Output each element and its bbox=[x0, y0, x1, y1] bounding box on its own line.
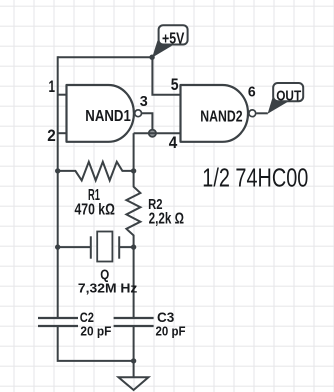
svg-text:2,2k Ω: 2,2k Ω bbox=[149, 211, 185, 228]
wire NAND2 output to OUT flag bbox=[257, 112, 268, 114]
svg-text:1/2 74HC00: 1/2 74HC00 bbox=[202, 162, 308, 192]
svg-text:NAND1: NAND1 bbox=[85, 108, 131, 125]
wire node to NAND2 pin 5 bbox=[152, 57, 180, 94]
svg-text:3: 3 bbox=[140, 93, 148, 110]
crystal Q left plate bbox=[90, 236, 92, 258]
svg-text:20 pF: 20 pF bbox=[156, 323, 186, 338]
node crystal right bbox=[131, 244, 136, 249]
svg-text:Q: Q bbox=[100, 266, 109, 282]
wire NAND1 pin 2 stub bbox=[58, 132, 67, 134]
junction gray node between gates bbox=[149, 130, 156, 137]
wire +5V top rail bbox=[58, 56, 152, 58]
ground symbol bbox=[119, 361, 149, 390]
power flag +5V tail bbox=[152, 41, 172, 58]
svg-text:4: 4 bbox=[169, 134, 178, 152]
wire junction down to R2 top bbox=[133, 133, 135, 171]
OUT flag box bbox=[273, 83, 303, 101]
svg-text:5: 5 bbox=[171, 76, 179, 94]
svg-text:NAND2: NAND2 bbox=[200, 109, 242, 126]
wire NAND1 pin 1 stub bbox=[58, 94, 67, 96]
svg-text:1: 1 bbox=[49, 78, 56, 96]
wire C3 top (crystal junction down to C3) bbox=[133, 247, 135, 318]
svg-text:470 kΩ: 470 kΩ bbox=[75, 202, 116, 219]
wire C2 bottom to ground rail bbox=[58, 326, 134, 361]
capacitor C3 plates bbox=[114, 318, 154, 326]
wire NAND2 pin 4 (over gray node) bbox=[134, 132, 181, 134]
resistor R1 bbox=[58, 162, 134, 181]
svg-text:7,32M Hz: 7,32M Hz bbox=[78, 281, 138, 296]
NAND2 output bubble bbox=[249, 110, 256, 117]
NAND1 output bubble bbox=[135, 110, 142, 117]
NAND1 gate body bbox=[67, 85, 134, 142]
crystal Q wires bbox=[58, 246, 134, 248]
node R1 left bbox=[55, 168, 60, 173]
node ground junction bbox=[131, 358, 136, 363]
svg-text:OUT: OUT bbox=[276, 88, 301, 104]
OUT flag tail bbox=[268, 96, 288, 114]
node crystal left bbox=[55, 244, 60, 249]
svg-text:2: 2 bbox=[47, 127, 56, 145]
node R1/R2 right bbox=[131, 168, 136, 173]
wire left rail (node to C2) bbox=[57, 56, 59, 318]
svg-text:20 pF: 20 pF bbox=[80, 323, 111, 338]
wire C3 bottom to ground rail bbox=[133, 326, 135, 361]
svg-text:6: 6 bbox=[248, 83, 256, 100]
crystal Q body bbox=[97, 232, 112, 262]
wire NAND1 output to junction bbox=[142, 113, 152, 133]
node +5V junction bbox=[149, 55, 154, 60]
power flag +5V box bbox=[159, 25, 188, 44]
svg-text:+5V: +5V bbox=[162, 30, 185, 47]
NAND2 gate body bbox=[181, 85, 249, 142]
crystal Q right plate bbox=[118, 236, 120, 258]
capacitor C2 plates bbox=[38, 318, 78, 326]
resistor R2 bbox=[126, 171, 140, 247]
